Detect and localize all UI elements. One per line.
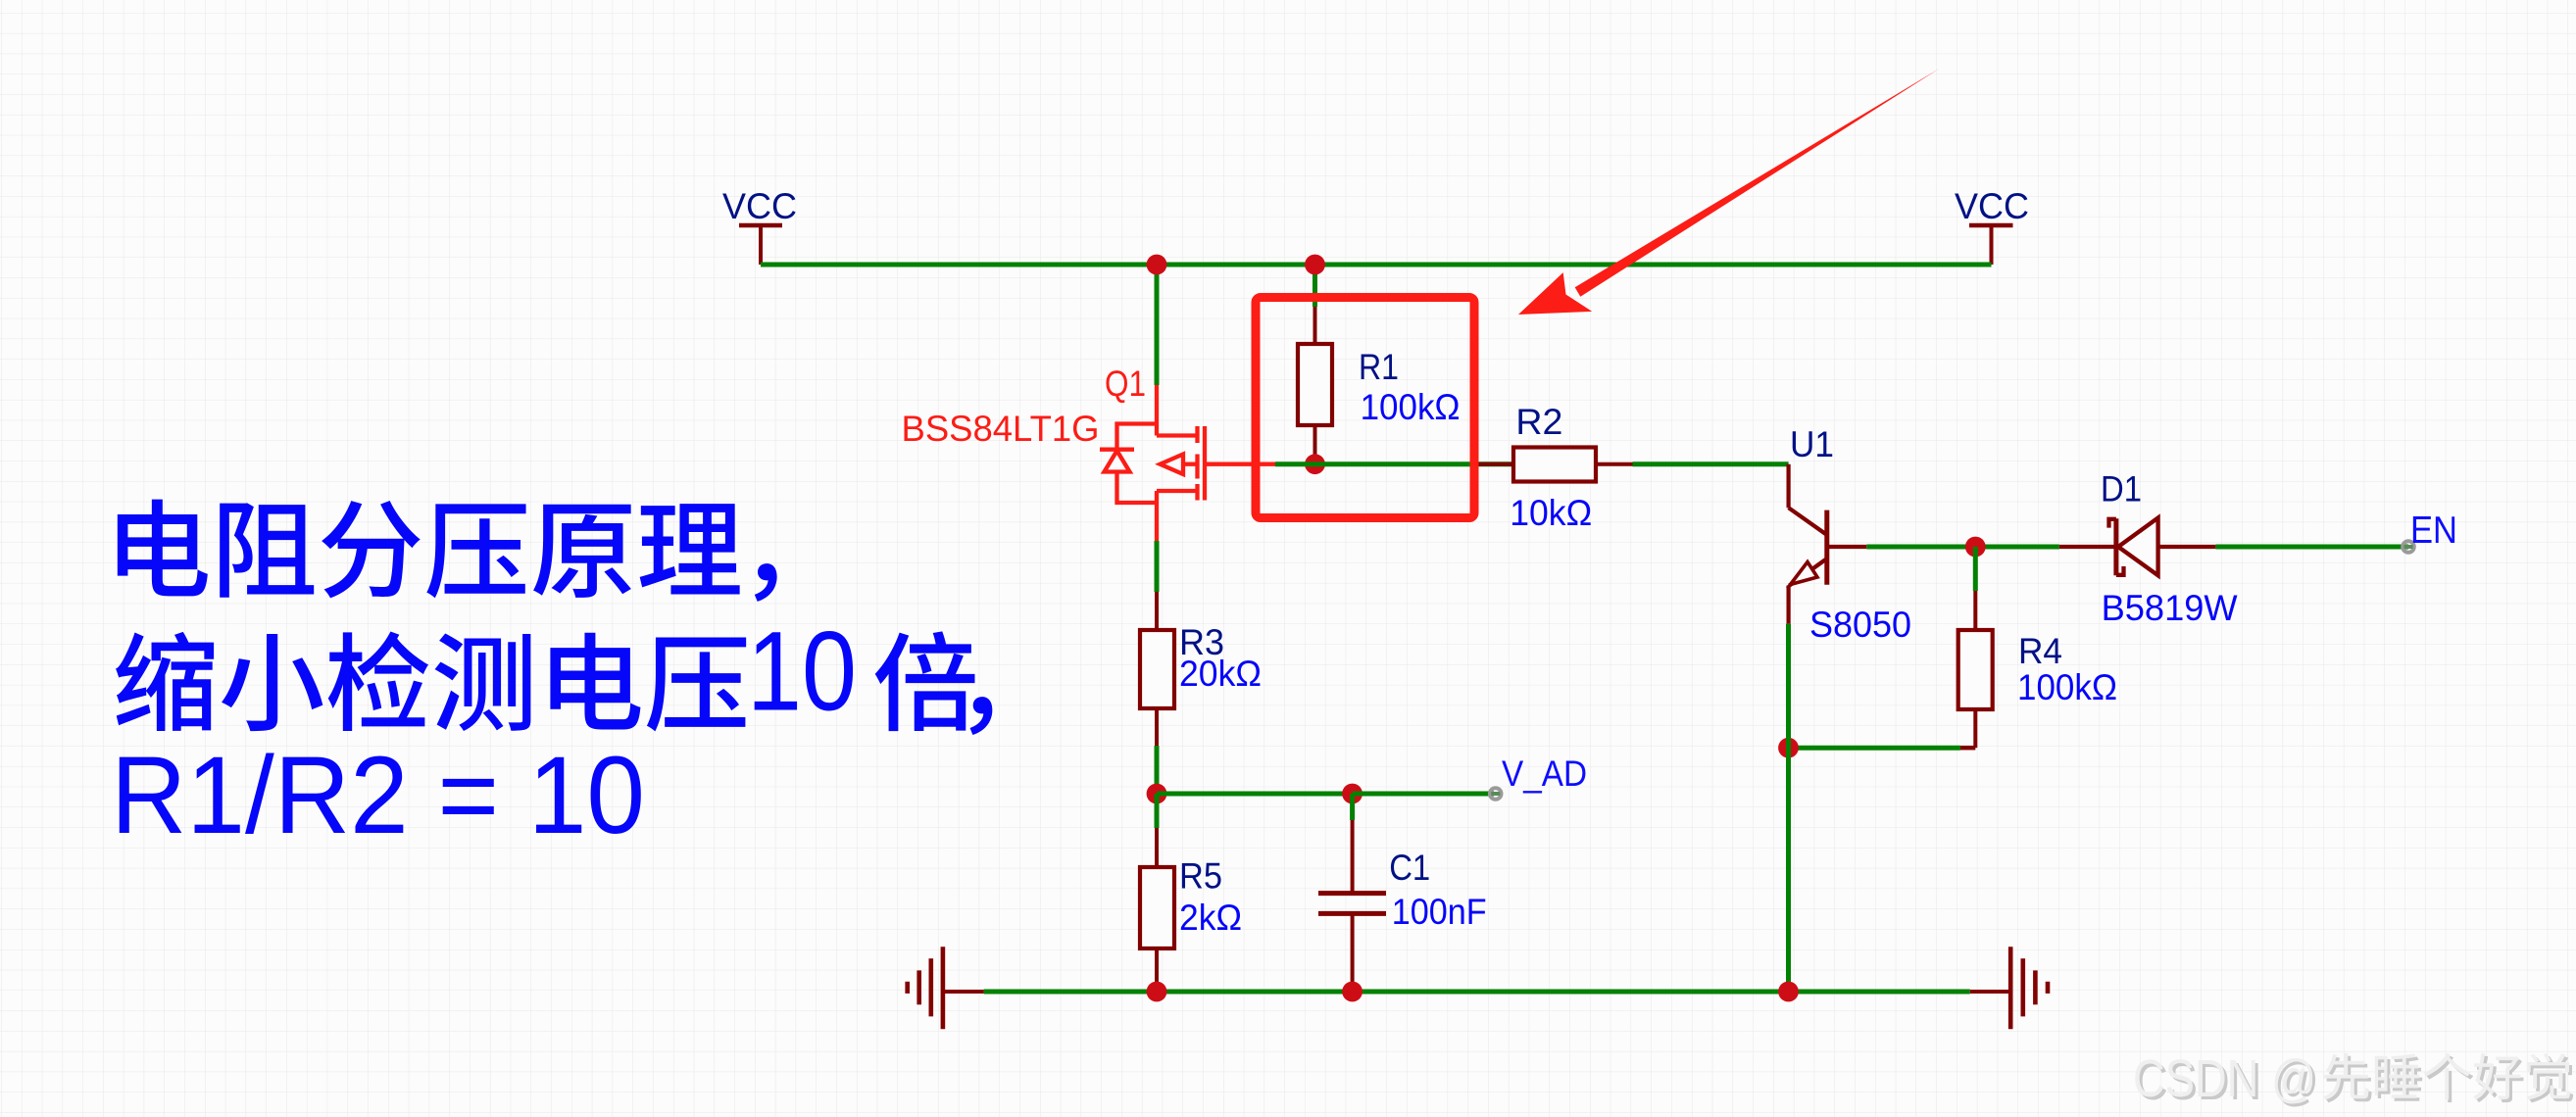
- svg-text:VCC: VCC: [722, 186, 797, 226]
- junction VCC rail / Q1 drain: [1147, 255, 1167, 275]
- svg-text:R1/R2 = 10: R1/R2 = 10: [111, 734, 645, 856]
- net port pin EN: [2403, 541, 2414, 553]
- wire U1 base to D1: [1866, 545, 2059, 550]
- svg-text:10: 10: [747, 609, 857, 735]
- transistor U1 S8050: [1789, 464, 1867, 624]
- wire Q1 source to R3: [1155, 541, 1160, 592]
- resistor R2: [1474, 448, 1633, 482]
- wire R2 to U1 collector: [1633, 461, 1789, 466]
- diode D1 B5819W (Schottky, cathode left): [2059, 518, 2216, 576]
- junction ground rail / C1: [1342, 982, 1362, 1002]
- annotation text line 2: 缩小检测电压10倍，: [116, 609, 992, 736]
- svg-text:R4: R4: [2018, 631, 2062, 671]
- junction V_AD node at R3/R5: [1147, 784, 1167, 804]
- svg-text:R5: R5: [1179, 856, 1222, 897]
- wire Q1 gate to R2: [1275, 461, 1513, 466]
- wire D1 to EN port: [2215, 545, 2408, 550]
- wire VCC rail: [761, 263, 1992, 267]
- net port pin V_AD: [1490, 788, 1502, 800]
- svg-text:20kΩ: 20kΩ: [1179, 654, 1262, 694]
- wire ground rail: [984, 990, 1970, 995]
- ground symbol (right): [1970, 947, 2048, 1029]
- wire U1 emitter to ground rail: [1786, 624, 1791, 992]
- junction base wire / R4 top: [1965, 537, 1986, 558]
- capacitor C1: [1318, 794, 1386, 992]
- power symbol VCC (right): [1969, 225, 2013, 265]
- svg-text:BSS84LT1G: BSS84LT1G: [902, 409, 1100, 449]
- wire C1 to V_AD port: [1353, 792, 1494, 797]
- junction emitter column / R4: [1778, 738, 1799, 758]
- svg-text:S8050: S8050: [1809, 605, 1911, 645]
- svg-text:Q1: Q1: [1105, 364, 1146, 404]
- svg-text:100kΩ: 100kΩ: [1361, 387, 1461, 427]
- svg-text:C1: C1: [1389, 848, 1430, 888]
- svg-text:100kΩ: 100kΩ: [2017, 667, 2117, 707]
- svg-text:10kΩ: 10kΩ: [1510, 493, 1592, 533]
- wire VCC rail to R1 top: [1313, 265, 1317, 307]
- junction VCC rail / R1: [1305, 255, 1325, 275]
- svg-text:2kΩ: 2kΩ: [1179, 898, 1242, 938]
- svg-text:EN: EN: [2410, 510, 2457, 552]
- svg-text:R1: R1: [1359, 347, 1399, 387]
- resistor R3: [1140, 592, 1174, 746]
- resistor R4: [1958, 547, 1993, 748]
- ground symbol (left): [908, 947, 984, 1029]
- resistor R5: [1140, 794, 1174, 992]
- junction V_AD node at C1: [1342, 784, 1362, 804]
- power symbol VCC (left): [739, 225, 782, 265]
- svg-text:B5819W: B5819W: [2102, 588, 2238, 628]
- resistor R1: [1298, 307, 1332, 463]
- junction R1 bottom / Q1 gate node: [1305, 454, 1325, 474]
- junction ground rail / R5: [1147, 982, 1167, 1002]
- annotation arrow pointing at R1 box: [1518, 69, 1940, 315]
- svg-text:D1: D1: [2101, 469, 2142, 510]
- wire V_AD node to C1: [1157, 792, 1353, 797]
- annotation highlight box around R1: [1256, 298, 1474, 518]
- watermark CSDN @先睡个好觉: [2133, 1049, 2573, 1111]
- transistor Q1 BSS84LT1G P-MOSFET (selected, red): [1100, 385, 1275, 541]
- wire R3 to V_AD node: [1155, 746, 1160, 794]
- svg-text:R2: R2: [1515, 402, 1562, 442]
- svg-text:VCC: VCC: [1955, 186, 2029, 226]
- svg-text:U1: U1: [1790, 424, 1834, 464]
- svg-text:100nF: 100nF: [1392, 892, 1487, 932]
- wire R4 bottom to emitter column: [1789, 746, 1976, 751]
- annotation text line 1: 电阻分压原理，: [118, 500, 777, 602]
- svg-text:V_AD: V_AD: [1502, 753, 1587, 794]
- junction ground rail / U1 emitter: [1778, 982, 1799, 1002]
- wire VCC rail to Q1 drain: [1155, 265, 1160, 385]
- svg-text:CSDN @: CSDN @: [2133, 1049, 2316, 1108]
